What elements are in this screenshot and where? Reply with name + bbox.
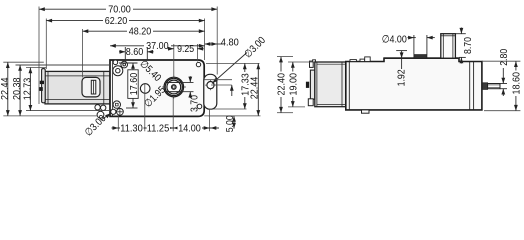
svg-text:4.80: 4.80 (221, 38, 239, 49)
rivet top-right (196, 62, 200, 66)
bottom-left boss cluster (95, 105, 106, 118)
side gearbox parting line 2 (473, 62, 475, 110)
svg-text:9.25: 9.25 (177, 44, 194, 55)
ext tab down (209, 109, 211, 131)
tick 12.73 top (26, 67, 47, 69)
side gearbox parting line 1 (469, 62, 471, 110)
svg-text:48.20: 48.20 (129, 26, 152, 37)
motor rear housing clip line (93, 80, 95, 94)
svg-text:3.70: 3.70 (189, 95, 200, 112)
label 11.30 (120, 123, 144, 134)
dimension 48.20 (83, 30, 205, 32)
dimension 8.60 (119, 47, 154, 60)
side gearbox joint line (348, 62, 350, 110)
ext tab bottom step (209, 115, 235, 117)
dimension 17.33 (244, 63, 246, 109)
shaft center hole (171, 85, 176, 90)
dimension 19.00 (292, 62, 294, 107)
motor rear housing (82, 77, 100, 97)
dimension 4.80 (205, 43, 224, 45)
dimension 22.40 (280, 57, 282, 113)
svg-text:22.44: 22.44 (249, 77, 260, 100)
mounting tab (204, 74, 217, 109)
tick 19.00 top (288, 61, 315, 63)
dimension 5.00 (233, 116, 235, 129)
dimension 2.80 (500, 68, 507, 96)
dimension 17.60 (119, 63, 138, 108)
label 14.00 (178, 123, 203, 134)
rivet bottom-right (197, 104, 202, 109)
tick 22.40 top (277, 56, 293, 58)
tick 12.73 bottom / gearbox plate bottom edge (26, 110, 110, 112)
dimension 62.20 (46, 20, 204, 22)
dimension 1.92 (396, 50, 407, 52)
side motor can (315, 62, 346, 107)
svg-text:22.40: 22.40 (277, 73, 288, 96)
dimension 18.60 (482, 60, 521, 62)
ext top right (206, 62, 260, 64)
tick 22.44 top (3, 61, 44, 63)
svg-text:22.44: 22.44 (0, 77, 11, 100)
side motor can rear line (341, 62, 343, 107)
dimension 3.70 (176, 76, 194, 98)
ext line left 70.00 (38, 7, 40, 105)
motor terminal 2 (39, 87, 43, 91)
dimension 22.44 right (257, 63, 259, 116)
ext tab bottom right (209, 108, 247, 110)
svg-text:1.92: 1.92 (397, 69, 408, 86)
motor rear housing clip (91, 80, 96, 94)
svg-text:5.00: 5.00 (225, 115, 236, 132)
boss block dark (110, 110, 113, 114)
ext line gearbox right edge (204, 19, 206, 61)
ext line left 62.20 (45, 19, 47, 70)
side motor can face line (316, 62, 318, 107)
side motor can wall bottom (317, 104, 346, 106)
tick 20.38 top / gearbox plate top edge (16, 64, 111, 66)
motor end cap (42, 69, 46, 103)
motor can (45, 71, 110, 104)
tab hole crosshair (205, 80, 216, 90)
svg-text:2.80: 2.80 (499, 49, 510, 66)
output shaft crosshair (162, 76, 186, 99)
ext gearbox bottom right (204, 115, 260, 117)
side gearbox body (346, 58, 482, 110)
half arrow at 85 (231, 85, 233, 96)
side motor can wall top (317, 63, 346, 65)
dimension 12.73 left (29, 68, 31, 111)
dimension 37.00 (110, 45, 205, 47)
svg-text:17.60: 17.60 (129, 73, 140, 96)
leader dia 3.00 bottom (102, 113, 111, 119)
gearbox body (110, 60, 204, 116)
top-left boss cluster (113, 60, 128, 76)
rear shaft (488, 84, 500, 89)
svg-text:11.30: 11.30 (120, 123, 143, 134)
ext tab top right (205, 79, 233, 81)
side top bump 2 (365, 57, 371, 62)
output shaft boss outer (164, 77, 184, 97)
rear shaft lines (488, 85, 500, 87)
rear shaft hub (482, 83, 487, 90)
ext tab hole right (211, 84, 232, 86)
side gearbox dome line (384, 57, 459, 59)
dimension 22.44 left (7, 62, 9, 116)
gearbox inner left line (112, 60, 114, 116)
ext hole column down (117, 115, 119, 131)
tick 22.40 bottom (277, 112, 293, 114)
ext line left 48.20 (82, 29, 84, 77)
boss circle with square (111, 101, 124, 115)
output shaft side (441, 34, 456, 59)
svg-text:8.60: 8.60 (126, 47, 144, 58)
motor terminal 1 (40, 81, 44, 84)
shaft boss side (414, 55, 427, 59)
boss circle cross (117, 109, 122, 114)
dimension 20.38 left (19, 65, 21, 116)
ext line tab right edge (216, 7, 218, 75)
side top bump 1 (350, 60, 356, 62)
side motor end cap (310, 70, 314, 99)
output shaft body (167, 80, 181, 94)
svg-text:37.00: 37.00 (146, 41, 169, 52)
svg-text:19.00: 19.00 (288, 73, 299, 96)
ext line shaft center up (173, 44, 175, 79)
output shaft boss ring (165, 78, 182, 95)
ext idler down (144, 84, 146, 131)
label 11.25 (147, 123, 171, 134)
svg-text:14.00: 14.00 (178, 123, 201, 134)
bottom dimension line (112, 127, 220, 129)
svg-text:8.70: 8.70 (463, 37, 474, 54)
dimension 70.00 (39, 8, 217, 10)
leader dia 3.00 top (212, 53, 247, 84)
side bottom bump (362, 110, 370, 113)
tab hole (207, 82, 214, 89)
shaft center square (173, 86, 175, 88)
tick 19.00 bottom (288, 106, 305, 108)
svg-text:70.00: 70.00 (108, 4, 131, 15)
svg-text:11.25: 11.25 (147, 123, 170, 134)
ext shaft down (172, 96, 174, 131)
side strap clip top (310, 61, 314, 67)
shaft flat bottom (166, 91, 182, 93)
svg-text:12.73: 12.73 (22, 78, 33, 101)
output shaft side walls (441, 34, 456, 59)
idler circle (140, 84, 150, 94)
side strap clip bottom (308, 99, 313, 106)
ext line rivet up (196, 44, 198, 62)
dimension 8.70 (455, 28, 465, 64)
svg-text:∅4.00: ∅4.00 (382, 35, 407, 46)
ext gearbox bottom left (3, 115, 97, 117)
side strap tab top (313, 60, 316, 62)
dimension 9.25 (168, 48, 204, 50)
side motor terminal (306, 82, 309, 88)
shaft flat top (166, 81, 182, 83)
svg-text:62.20: 62.20 (105, 16, 128, 27)
svg-text:18.60: 18.60 (512, 72, 523, 95)
side top bump 2 step (360, 59, 365, 61)
